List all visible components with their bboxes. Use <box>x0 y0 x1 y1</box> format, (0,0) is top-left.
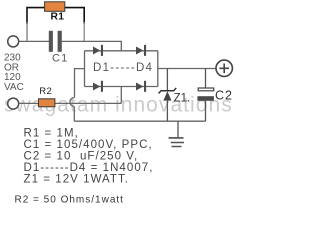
svg-text:R1 = 1M,: R1 = 1M, <box>24 127 79 139</box>
svg-text:R1: R1 <box>51 12 65 23</box>
diode D top-right <box>136 47 143 55</box>
zener Z1 <box>166 69 168 122</box>
wire R1 loop <box>27 8 84 24</box>
wire DC- from bridge left with hop over R2 wire <box>70 69 85 122</box>
svg-text:Z1.: Z1. <box>174 92 191 104</box>
input terminal 2 <box>8 98 19 109</box>
diode D bottom-right <box>136 83 143 91</box>
input terminal 1 <box>8 36 19 47</box>
bridge rectifier box <box>85 51 158 87</box>
svg-text:R2: R2 <box>39 86 52 97</box>
svg-text:C2 = 10 uF/250 V,: C2 = 10 uF/250 V, <box>24 150 139 162</box>
svg-text:C1: C1 <box>52 53 68 65</box>
svg-text:C2: C2 <box>215 89 233 103</box>
svg-text:D1-----D4: D1-----D4 <box>93 62 153 74</box>
svg-text:D1------D4 = 1N4007,: D1------D4 = 1N4007, <box>24 162 154 174</box>
resistor R1 <box>45 2 65 12</box>
svg-text:VAC: VAC <box>4 82 24 93</box>
svg-text:Z1 = 12V 1WATT.: Z1 = 12V 1WATT. <box>24 173 130 185</box>
diode D top-left <box>93 47 100 55</box>
wire from terminal 2 through R2 to bridge bottom mid <box>19 87 122 104</box>
ground rail <box>74 120 205 122</box>
wire DC+ from bridge right to output <box>158 68 216 70</box>
svg-text:C1 = 105/400V, PPC,: C1 = 105/400V, PPC, <box>24 139 153 151</box>
capacitor C1 <box>49 31 53 52</box>
ground <box>177 121 179 137</box>
svg-text:R2 = 50 Ohms/1watt: R2 = 50 Ohms/1watt <box>15 195 124 205</box>
capacitor C2 <box>205 69 207 122</box>
output terminal plus <box>216 60 232 76</box>
wire from C1 to bridge top mid <box>62 41 122 50</box>
diode D bottom-left <box>93 83 100 91</box>
resistor R2 <box>39 99 55 107</box>
wire from terminal 1 to C1 <box>19 40 49 42</box>
